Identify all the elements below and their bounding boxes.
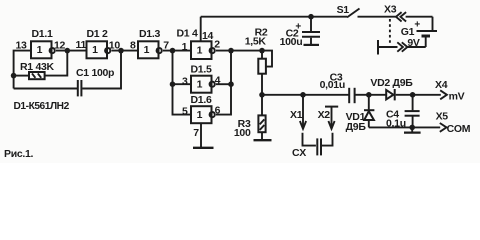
svg-text:7: 7	[193, 127, 199, 139]
node: detector input junction	[366, 92, 372, 98]
label S1	[337, 4, 350, 16]
pin 7 label (ground pin)	[193, 127, 199, 139]
label X5	[436, 110, 449, 122]
wire: D1.1 input stub and left feedback riser	[14, 51, 31, 89]
svg-text:D1 4: D1 4	[177, 28, 198, 40]
wire: measuring node horizontal	[262, 94, 349, 96]
svg-text:Д9Б: Д9Б	[346, 121, 367, 133]
label D1-K561LN2	[14, 101, 70, 112]
label D1.3	[139, 28, 160, 40]
pin 3	[182, 75, 188, 87]
label R2	[255, 27, 268, 39]
pin 4	[215, 75, 221, 87]
ground: D1.6 pin 7	[193, 147, 214, 149]
svg-text:X4: X4	[435, 79, 448, 91]
wire: right output bus	[216, 51, 231, 115]
connector X3 mechanical link (dashed)	[389, 19, 391, 46]
wire: bottom oscillator wire to C1	[14, 88, 77, 90]
pin 1	[182, 41, 188, 53]
node: output bus at D1.5	[228, 81, 234, 87]
svg-text:0,01u: 0,01u	[320, 79, 345, 91]
diode VD2	[369, 89, 441, 100]
pin 13	[16, 40, 28, 52]
node: D1.1 output junction	[65, 48, 71, 54]
svg-text:9V: 9V	[407, 37, 420, 49]
svg-text:COM: COM	[447, 123, 471, 135]
terminal: battery return bar	[377, 40, 379, 55]
wire: D1.2 output to D1.3 input	[112, 50, 139, 52]
svg-text:1: 1	[197, 109, 203, 121]
pin 7	[163, 39, 169, 51]
pin 11	[76, 39, 87, 51]
svg-text:1: 1	[37, 44, 43, 56]
svg-text:D1.3: D1.3	[139, 28, 160, 40]
label G1	[401, 26, 415, 38]
pin 14 label	[202, 30, 214, 42]
node: output bus top junction	[228, 48, 234, 54]
node: input bus at D1.5	[170, 81, 176, 87]
svg-text:1: 1	[197, 78, 203, 90]
svg-text:VD2 Д9Б: VD2 Д9Б	[370, 77, 413, 89]
label C3	[330, 71, 343, 83]
node: C2 junction on rail	[308, 14, 314, 20]
label VD1	[346, 111, 366, 123]
capacitor CX (device under test)	[303, 133, 333, 156]
svg-text:8: 8	[130, 39, 136, 51]
common rail (bottom)	[369, 126, 440, 128]
diode VD1	[364, 95, 374, 128]
inverter D1.3	[138, 41, 162, 58]
inverter D1.6	[191, 106, 215, 123]
label 9V	[407, 37, 420, 49]
terminal X2 (probe arrow with bar)	[325, 107, 338, 129]
svg-text:2: 2	[214, 39, 220, 51]
svg-text:14: 14	[202, 30, 214, 42]
connector X3 top contacts	[396, 12, 433, 21]
pin 2	[214, 39, 220, 51]
label C1 100p	[76, 67, 114, 79]
node: common rail junction	[409, 125, 415, 131]
capacitor C4	[405, 95, 420, 128]
label + (G1 polarity)	[414, 20, 420, 31]
label R1 43K	[20, 61, 55, 73]
pin 6	[215, 105, 221, 117]
inverter D1.1	[31, 41, 55, 58]
pin 10	[109, 39, 121, 51]
node: D1.2 output junction	[118, 48, 124, 54]
svg-text:11: 11	[76, 39, 87, 51]
label R3	[238, 118, 251, 130]
label 100u	[280, 36, 303, 48]
label X4	[435, 79, 448, 91]
wire: D1.6 pin 7 to ground	[200, 123, 202, 147]
svg-text:D1.1: D1.1	[32, 28, 53, 40]
label D1.1	[32, 28, 53, 40]
node: R2 bottom junction	[259, 92, 265, 98]
ground: R3 bottom	[254, 139, 272, 141]
label 0,1u	[386, 117, 406, 129]
connector X3 bottom contacts	[378, 42, 407, 51]
ground: common rail	[404, 127, 421, 132]
wire: D1.1 output to D1.2 input	[56, 50, 87, 52]
terminal X5 arrow	[440, 123, 447, 132]
svg-text:1: 1	[92, 44, 98, 56]
node: X1 junction	[300, 92, 306, 98]
svg-text:C1 100p: C1 100p	[76, 67, 114, 79]
label D1 4	[177, 28, 198, 40]
wire: D1.3 output to D1.4 input	[163, 50, 191, 52]
svg-text:S1: S1	[337, 4, 350, 16]
ground: C2 bottom	[304, 44, 320, 46]
label D1 2	[87, 28, 108, 40]
label 1,5K	[245, 35, 267, 47]
svg-text:mV: mV	[449, 91, 465, 103]
label 0,01u	[320, 79, 345, 91]
svg-text:D1-К561ЛН2: D1-К561ЛН2	[14, 101, 70, 112]
label CX	[292, 147, 306, 159]
svg-text:13: 13	[16, 40, 28, 52]
svg-text:3: 3	[182, 75, 188, 87]
svg-text:D1.5: D1.5	[191, 64, 212, 76]
svg-text:12: 12	[54, 39, 66, 51]
inverter D1.2	[87, 41, 111, 58]
svg-text:X1: X1	[290, 109, 303, 121]
svg-text:CX: CX	[292, 147, 306, 159]
label mV	[449, 91, 465, 103]
inverter D1.5	[191, 76, 215, 93]
svg-text:7: 7	[163, 39, 169, 51]
resistor R1	[14, 72, 45, 79]
supply rail (top)	[201, 16, 347, 18]
svg-text:Рис.1.: Рис.1.	[4, 148, 34, 160]
svg-text:100u: 100u	[280, 36, 303, 48]
inverter D1.4	[191, 41, 215, 59]
battery G1	[408, 17, 438, 47]
svg-text:5: 5	[182, 105, 188, 117]
capacitor C1	[78, 80, 82, 96]
terminal X4 arrow	[440, 90, 447, 99]
wire: left input bus down to D1.5 and D1.6	[173, 51, 192, 115]
svg-text:1: 1	[144, 44, 150, 56]
svg-text:100: 100	[234, 127, 251, 139]
label 100 (R3 value)	[234, 127, 251, 139]
label D1.6	[191, 94, 212, 106]
label D9B (VD1 type)	[346, 121, 367, 133]
node: R2 top junction	[259, 48, 265, 54]
svg-text:1: 1	[197, 44, 203, 56]
resistor R3	[258, 95, 265, 140]
resistor R2 (trimmer, rheostat wired)	[258, 51, 272, 95]
wire: D1.4 output to R2 node	[216, 50, 262, 52]
node: junction feedback/R1 left	[11, 73, 17, 79]
pin 8	[130, 39, 136, 51]
label + (C2 polarity)	[295, 22, 301, 33]
label C4	[386, 108, 399, 120]
svg-text:1,5K: 1,5K	[245, 35, 267, 47]
svg-text:D1.6: D1.6	[191, 94, 212, 106]
svg-text:+: +	[414, 20, 420, 31]
label X3	[384, 4, 397, 16]
node: C4 top junction	[410, 92, 416, 98]
label D1.5	[191, 64, 212, 76]
label Ris.1.	[4, 148, 34, 160]
wire: feedback branch down to R1	[45, 51, 68, 76]
label VD2 D9B	[370, 77, 413, 89]
switch S1	[347, 9, 396, 18]
wire: pin 14 riser to supply rail	[200, 17, 202, 42]
svg-text:1: 1	[182, 41, 188, 53]
svg-text:X5: X5	[436, 110, 449, 122]
label X2	[318, 109, 331, 121]
svg-text:X2: X2	[318, 109, 331, 121]
wire: C1 right to D1.2 output	[82, 51, 121, 89]
pin 12	[54, 39, 66, 51]
label C2	[286, 28, 299, 40]
svg-text:D1 2: D1 2	[87, 28, 108, 40]
capacitor C3	[349, 88, 369, 103]
label COM	[447, 123, 471, 135]
svg-text:R1 43K: R1 43K	[20, 61, 55, 73]
svg-text:X3: X3	[384, 4, 397, 16]
capacitor C2 (electrolytic)	[302, 17, 320, 45]
svg-text:+: +	[295, 22, 301, 33]
terminal X1 (probe arrow)	[300, 95, 306, 129]
pin 5	[182, 105, 188, 117]
label X1	[290, 109, 303, 121]
node: D1.3 output junction on input bus	[170, 48, 176, 54]
